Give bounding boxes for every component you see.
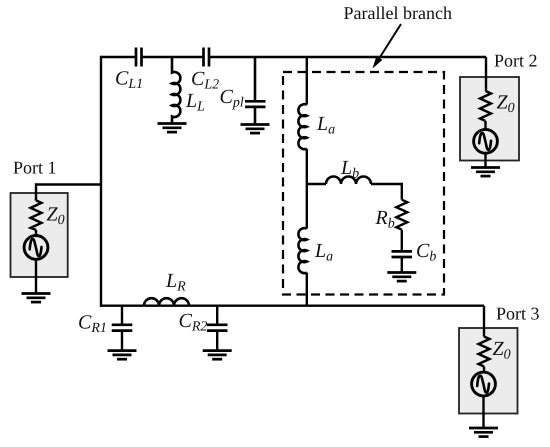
ground (Cpl) [241, 125, 270, 134]
ground (Cb) [387, 273, 416, 282]
AC source (Port 2) [474, 129, 498, 153]
wire branch vertical (middle) [306, 149, 308, 229]
Port 2 internals: resistor Z0 [480, 91, 491, 128]
Port 3 box [459, 328, 518, 414]
capacitor Cpl [254, 57, 257, 125]
inductor La upper [298, 104, 306, 149]
AC source (Port 3) [472, 372, 496, 396]
Port 1 box [11, 193, 68, 277]
inductor LR [144, 298, 189, 306]
ground (CR2) [203, 351, 232, 360]
resistor Rb [396, 183, 407, 252]
ground (Port 3) [469, 428, 498, 437]
AC source (Port 1) [24, 236, 48, 260]
wire top (CL2 to Port2 corner) [209, 56, 486, 58]
svg-text:Parallel branch: Parallel branch [344, 3, 452, 23]
svg-text:Port 1: Port 1 [13, 158, 57, 178]
arrow (Parallel branch pointer) [379, 24, 402, 60]
svg-text:Port 3: Port 3 [496, 304, 540, 324]
capacitor CR1 [121, 306, 123, 351]
Port 2 box [460, 77, 519, 161]
wire left vertical [100, 56, 102, 307]
ground (Port 1) [22, 294, 51, 303]
inductor La lower [298, 228, 306, 273]
ground (LL) [158, 124, 187, 133]
capacitor Cb [392, 251, 413, 257]
wire Port 3 stem [483, 306, 485, 337]
wire branch vertical (bottom) [306, 273, 308, 306]
wire branch vertical (top) [306, 57, 308, 105]
wire Port 1 tap [36, 185, 101, 201]
wire bottom [101, 305, 484, 307]
ground (Port 2) [471, 168, 500, 177]
dashed box (parallel branch) [283, 72, 444, 295]
svg-text:Port 2: Port 2 [494, 51, 538, 71]
wire top (CL1 to CL2) [142, 56, 204, 58]
wire top (left segment to CL1) [101, 56, 136, 58]
wire Port 2 stem [485, 57, 487, 91]
capacitor CR2 [216, 306, 218, 351]
Port 1 internals: resistor Z0 [31, 200, 42, 235]
Port 3 internals: resistor Z0 [479, 337, 490, 372]
inductor Lb [307, 177, 402, 184]
ground (CR1) [108, 351, 137, 360]
capacitor CL2 [204, 48, 210, 67]
inductor LL [172, 57, 180, 124]
capacitor CL1 [136, 48, 142, 67]
